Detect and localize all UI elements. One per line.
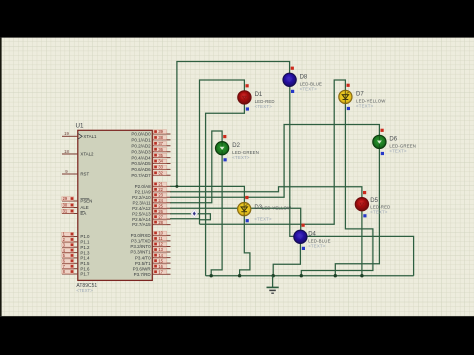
pin P2.6 (27) — [152, 218, 170, 220]
node D1 anode square — [246, 84, 249, 87]
svg-text:17: 17 — [158, 269, 163, 274]
node D1 cathode square — [246, 107, 249, 110]
LED D2 (LED-GREEN) — [216, 142, 229, 155]
pin P1.7 (8) — [62, 273, 78, 275]
svg-text:31: 31 — [63, 209, 68, 214]
svg-text:P3.7/RD: P3.7/RD — [134, 272, 152, 277]
svg-text:37: 37 — [158, 141, 163, 146]
svg-text:14: 14 — [158, 253, 163, 258]
pin P3.7 (17) — [152, 273, 170, 275]
svg-text:U1: U1 — [76, 122, 84, 129]
pin P2.0 (21) — [152, 185, 170, 187]
pin P1.3 (4) — [62, 252, 78, 254]
junction D4/ground — [272, 274, 275, 277]
pin P1.1 (2) — [62, 241, 78, 243]
LED D7 (LED-YELLOW) — [339, 90, 352, 103]
svg-text:25: 25 — [158, 203, 163, 208]
wire D8 cathode to ground rail — [290, 86, 414, 276]
LED D8 (LED-BLUE) — [283, 73, 296, 86]
pin P0.3 (36) — [152, 151, 170, 153]
svg-text:D7: D7 — [356, 92, 364, 98]
svg-text:D4: D4 — [308, 231, 316, 237]
svg-text:LED-YELLOW: LED-YELLOW — [262, 206, 292, 211]
svg-text:P3.1/TXD: P3.1/TXD — [131, 239, 151, 244]
svg-text:30: 30 — [63, 203, 68, 208]
svg-text:P2.3/A11: P2.3/A11 — [133, 200, 152, 205]
svg-text:26: 26 — [158, 209, 163, 214]
pin P3.5 (15) — [152, 262, 170, 264]
svg-text:P2.7/A15: P2.7/A15 — [132, 222, 151, 227]
pin P3.0 (10) — [152, 234, 170, 236]
pin XTAL1 (19) — [62, 135, 78, 137]
svg-text:P2.1/A9: P2.1/A9 — [135, 190, 152, 195]
svg-text:P3.4/T0: P3.4/T0 — [135, 255, 151, 260]
svg-text:D2: D2 — [232, 143, 240, 149]
LED D3 (LED-YELLOW) — [238, 203, 251, 216]
node D2 anode square — [223, 135, 226, 138]
pin P0.5 (34) — [152, 163, 170, 165]
pin EA (31) — [62, 213, 78, 215]
pin P0.0 (39) — [152, 133, 170, 135]
svg-text:P0.6/AD6: P0.6/AD6 — [131, 167, 151, 172]
node D3 cathode square — [246, 219, 249, 222]
junction D3/rail — [238, 274, 241, 277]
svg-text:38: 38 — [158, 135, 163, 140]
svg-text:PSEN: PSEN — [80, 199, 92, 204]
wire P2.6 stub — [170, 218, 200, 220]
svg-text:10: 10 — [158, 231, 163, 236]
node marker blue diamond — [191, 209, 198, 218]
wire D2 cathode to ground rail — [211, 155, 222, 276]
svg-text:<TEXT>: <TEXT> — [255, 104, 273, 109]
node D8 cathode square — [291, 90, 294, 93]
svg-text:16: 16 — [158, 264, 163, 269]
svg-text:11: 11 — [158, 236, 163, 241]
pin ALE (30) — [62, 207, 78, 209]
svg-text:P2.2/A10: P2.2/A10 — [132, 195, 151, 200]
pin P0.6 (33) — [152, 168, 170, 170]
svg-text:12: 12 — [158, 242, 163, 247]
svg-text:P3.2/INT0: P3.2/INT0 — [130, 244, 151, 249]
wire P2.2 to D6 anode — [170, 125, 379, 198]
node D7 cathode square — [347, 107, 350, 110]
svg-text:P2.5/A13: P2.5/A13 — [132, 211, 151, 216]
pin P1.5 (6) — [62, 262, 78, 264]
svg-text:24: 24 — [158, 198, 163, 203]
svg-text:19: 19 — [64, 131, 69, 136]
svg-text:34: 34 — [158, 159, 163, 164]
pin P0.1 (38) — [152, 139, 170, 141]
svg-text:XTAL2: XTAL2 — [80, 152, 94, 157]
pin P2.4 (25) — [152, 207, 170, 209]
svg-text:D6: D6 — [389, 137, 397, 143]
microcontroller U1 AT89C51 body — [78, 130, 153, 280]
junction D2/rail — [210, 274, 213, 277]
svg-text:P2.6/A14: P2.6/A14 — [132, 217, 151, 222]
junction D7/rail — [300, 274, 303, 277]
svg-text:XTAL1: XTAL1 — [83, 134, 97, 139]
svg-text:P2.0/A8: P2.0/A8 — [135, 184, 152, 189]
svg-text:P1.0: P1.0 — [80, 234, 90, 239]
wire P2.1 to D5 anode — [170, 187, 362, 198]
svg-text:23: 23 — [158, 193, 163, 198]
node D4 cathode square — [302, 247, 305, 250]
svg-text:P0.7/AD7: P0.7/AD7 — [131, 173, 151, 178]
pin P0.2 (37) — [152, 145, 170, 147]
pin P3.6 (16) — [152, 268, 170, 270]
svg-text:EA: EA — [80, 211, 86, 216]
svg-text:P1.1: P1.1 — [80, 240, 90, 245]
svg-text:P3.5/T1: P3.5/T1 — [135, 261, 151, 266]
pin P3.1 (11) — [152, 240, 170, 242]
wire P2.3 to D2 anode — [170, 131, 222, 203]
left edge strip — [0, 38, 2, 317]
svg-text:<TEXT>: <TEXT> — [308, 244, 326, 249]
svg-text:<TEXT>: <TEXT> — [370, 210, 388, 215]
svg-text:P3.3/INT1: P3.3/INT1 — [130, 250, 151, 255]
wire P2.4 to D4 anode — [170, 208, 301, 230]
pin XTAL2 (18) — [62, 153, 78, 155]
node D8 anode square — [291, 67, 294, 70]
svg-text:P1.5: P1.5 — [80, 261, 90, 266]
svg-text:18: 18 — [64, 149, 69, 154]
svg-text:P2.4/A12: P2.4/A12 — [132, 206, 151, 211]
svg-text:32: 32 — [158, 171, 163, 176]
svg-text:P3.6/WR: P3.6/WR — [133, 266, 152, 271]
svg-text:28: 28 — [158, 220, 163, 225]
svg-text:P1.6: P1.6 — [80, 266, 90, 271]
wire D1 cathode to ground rail — [206, 104, 245, 276]
svg-text:27: 27 — [158, 214, 163, 219]
svg-text:P0.0/AD0: P0.0/AD0 — [131, 132, 151, 137]
svg-text:P0.1/AD1: P0.1/AD1 — [131, 138, 151, 143]
LED D5 (LED-RED) — [355, 198, 368, 211]
svg-text:<TEXT>: <TEXT> — [232, 155, 250, 160]
wire riser to D8 anode — [177, 62, 290, 187]
wire ground rail — [206, 275, 414, 277]
svg-text:D8: D8 — [300, 74, 308, 80]
wire D7 cathode to ground rail — [301, 104, 373, 276]
svg-text:21: 21 — [158, 182, 163, 187]
wire riser to D1 anode — [200, 80, 245, 224]
svg-text:P1.3: P1.3 — [80, 250, 90, 255]
pin P2.5 (26) — [152, 213, 170, 215]
svg-text:P1.2: P1.2 — [80, 245, 90, 250]
pin P2.1 (22) — [152, 191, 170, 193]
pin P0.7 (32) — [152, 174, 170, 176]
node D6 cathode square — [381, 152, 384, 155]
svg-text:15: 15 — [158, 258, 163, 263]
svg-text:<TEXT>: <TEXT> — [76, 288, 93, 293]
wire bottom row to D7 anode — [200, 80, 346, 224]
svg-text:RST: RST — [80, 172, 89, 177]
junction D5/rail — [360, 274, 363, 277]
svg-text:P1.4: P1.4 — [80, 256, 90, 261]
junction D6/rail — [334, 274, 337, 277]
node D4 anode square — [302, 224, 305, 227]
LED D1 (LED-RED) — [238, 91, 251, 104]
svg-text:D1: D1 — [255, 92, 263, 98]
node D7 anode square — [347, 84, 350, 87]
junction P2.0 row / D8 riser — [175, 185, 178, 188]
node D5 anode square — [363, 191, 366, 194]
LED D4 (LED-BLUE) — [294, 230, 307, 243]
svg-text:35: 35 — [158, 153, 163, 158]
pin PSEN (29) — [62, 200, 78, 202]
svg-text:P1.7: P1.7 — [80, 272, 90, 277]
pin P1.0 (1) — [62, 236, 78, 238]
svg-text:33: 33 — [158, 165, 163, 170]
letterbox top bar — [0, 0, 474, 38]
svg-text:P0.4/AD4: P0.4/AD4 — [131, 155, 151, 160]
pin P1.6 (7) — [62, 268, 78, 270]
LED D6 (LED-GREEN) — [373, 135, 386, 148]
letterbox bottom bar — [0, 316, 474, 355]
wire D5 cathode to ground rail — [361, 211, 363, 276]
wire P2.5 jog — [170, 214, 210, 220]
pin P2.2 (23) — [152, 196, 170, 198]
svg-text:13: 13 — [158, 247, 163, 252]
wire P2.0 to D3 anode — [170, 186, 244, 202]
svg-text:<TEXT>: <TEXT> — [389, 149, 407, 154]
svg-text:P0.2/AD2: P0.2/AD2 — [131, 144, 151, 149]
svg-text:<TEXT>: <TEXT> — [300, 87, 318, 92]
node D3 anode square — [245, 196, 248, 199]
svg-text:P0.3/AD3: P0.3/AD3 — [131, 149, 151, 154]
node D2 cathode square — [224, 158, 227, 161]
svg-text:P3.0/RXD: P3.0/RXD — [131, 233, 152, 238]
wire D6 cathode to ground rail — [335, 148, 379, 275]
node D6 anode square — [381, 129, 384, 132]
svg-text:39: 39 — [158, 129, 163, 134]
ground — [267, 276, 279, 294]
pin P3.3 (13) — [152, 251, 170, 253]
svg-text:P0.5/AD5: P0.5/AD5 — [131, 161, 151, 166]
pin P2.7 (28) — [152, 224, 170, 226]
pin P3.4 (14) — [152, 257, 170, 259]
pin P1.2 (3) — [62, 246, 78, 248]
pin RST (9) — [62, 173, 78, 175]
svg-text:22: 22 — [158, 187, 163, 192]
pin P1.4 (5) — [62, 257, 78, 259]
svg-text:D5: D5 — [370, 198, 378, 204]
node D5 cathode square — [363, 214, 366, 217]
pin P2.3 (24) — [152, 202, 170, 204]
svg-text:<TEXT>: <TEXT> — [356, 104, 374, 109]
svg-text:36: 36 — [158, 147, 163, 152]
wire D3 cathode to ground rail — [240, 216, 250, 276]
pin P0.4 (35) — [152, 157, 170, 159]
svg-text:<TEXT>: <TEXT> — [254, 216, 272, 221]
pin P3.2 (12) — [152, 246, 170, 248]
svg-text:ALE: ALE — [80, 205, 88, 210]
wire D4 cathode to ground rail — [273, 243, 300, 276]
svg-text:29: 29 — [63, 196, 68, 201]
